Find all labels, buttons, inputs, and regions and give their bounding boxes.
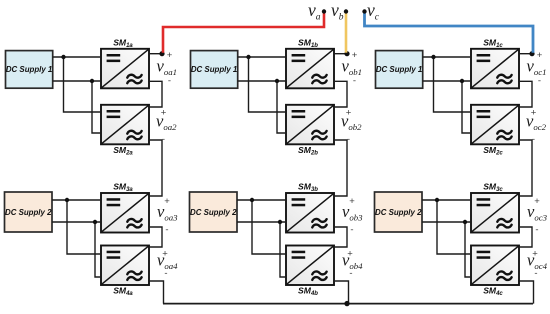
converter submodule SM4a — [101, 246, 149, 286]
converter submodule SM1c — [471, 49, 519, 89]
DC supply source "DC Supply 1" phase box — [6, 51, 53, 89]
wire tap vertical to SM4a bottom input — [95, 222, 101, 277]
wire series link SM2c output- to SM3c output+ — [519, 140, 532, 196]
terminal dot v_a — [322, 9, 326, 13]
wire SM1b output+ to phase node — [334, 53, 347, 55]
terminal dot v_c — [362, 9, 366, 13]
wire tap vertical to SM2b bottom input — [277, 81, 286, 133]
svg-text:-: - — [165, 225, 168, 236]
DC supply source "DC Supply 2" phase box — [5, 192, 53, 232]
svg-text:-: - — [347, 134, 350, 145]
wire DC Supply 2 (+) to SM3b and SM4b DC inputs — [237, 199, 286, 201]
junction dot phase b on neutral bus — [344, 301, 349, 306]
wire DC Supply 2 (-) to SM3c and SM4c DC inputs — [422, 221, 471, 223]
svg-text:+: + — [537, 50, 543, 61]
converter submodule SM4b — [286, 246, 334, 286]
wire phase b terminal (yellow) — [345, 12, 348, 53]
output voltage label v_oc3 with polarity marks — [527, 196, 548, 235]
wire SM1c output+ to phase node — [519, 53, 532, 55]
svg-text:+: + — [349, 196, 355, 207]
wire series link SM3a output- to SM4a output+ — [149, 227, 162, 247]
wire tap vertical to SM2c bottom input — [462, 81, 471, 133]
node phase a terminal junction — [159, 51, 164, 56]
svg-text:-: - — [353, 76, 356, 87]
wire DC Supply 2 (+) to SM3c and SM4c DC inputs — [422, 199, 471, 201]
wire tap vertical to SM2a bottom input — [92, 81, 101, 133]
converter submodule SM3a — [101, 193, 149, 233]
output voltage label v_ob3 with polarity marks — [342, 196, 363, 235]
wire DC Supply 1 (+) to SM1b and SM2b DC inputs — [238, 56, 286, 58]
svg-text:DC Supply 1: DC Supply 1 — [376, 65, 422, 74]
wire DC Supply 2 (-) to SM3a and SM4a DC inputs — [52, 221, 101, 223]
svg-text:-: - — [534, 268, 537, 279]
svg-text:+: + — [167, 50, 173, 61]
junction dot on DC Supply 2 (-) wire — [463, 220, 467, 224]
wire series link SM2b output- to SM3b output+ — [334, 140, 347, 196]
converter submodule SM2a — [101, 105, 149, 145]
phase a group — [5, 37, 179, 303]
wire tap vertical to SM2b top input — [249, 57, 287, 112]
junction dot on DC Supply 2 (+) wire — [65, 198, 69, 202]
wire phase c terminal (blue) — [365, 12, 534, 53]
wire series link SM1c output- to SM2c output+ — [519, 81, 532, 107]
node phase c terminal junction — [529, 51, 534, 56]
wire DC Supply 1 (-) to SM1b and SM2b DC inputs — [238, 80, 286, 82]
wire series link SM3c output- to SM4c output+ — [519, 227, 532, 247]
svg-text:-: - — [349, 268, 352, 279]
wire tap vertical to SM2a top input — [64, 57, 102, 112]
svg-text:DC Supply 2: DC Supply 2 — [5, 208, 52, 217]
wire DC Supply 2 (+) to SM3a and SM4a DC inputs — [52, 199, 101, 201]
wire tap vertical to SM4a top input — [67, 200, 101, 254]
svg-text:-: - — [164, 268, 167, 279]
wire tap vertical to SM4c top input — [437, 200, 471, 254]
junction dot on DC Supply 1 (-) wire — [275, 79, 279, 83]
converter submodule SM4c — [471, 246, 519, 286]
svg-text:-: - — [532, 134, 535, 145]
junction dot on DC Supply 1 (+) wire — [431, 55, 435, 59]
svg-text:-: - — [162, 134, 165, 145]
output voltage label v_ob4 with polarity marks — [342, 249, 363, 279]
wire series link SM1b output- to SM2b output+ — [334, 81, 347, 107]
wire SM4b output- down to bottom bus — [334, 281, 349, 304]
DC supply source "DC Supply 1" phase box — [191, 51, 238, 89]
wire DC Supply 1 (-) to SM1c and SM2c DC inputs — [423, 80, 471, 82]
svg-text:DC Supply 1: DC Supply 1 — [191, 65, 237, 74]
svg-text:-: - — [538, 76, 541, 87]
wire DC Supply 1 (+) to SM1c and SM2c DC inputs — [423, 56, 471, 58]
DC supply source "DC Supply 2" phase box — [375, 192, 423, 232]
wire DC Supply 1 (+) to SM1a and SM2a DC inputs — [53, 56, 101, 58]
node phase b terminal junction — [344, 51, 349, 56]
converter submodule SM3c — [471, 193, 519, 233]
DC supply source "DC Supply 2" phase box — [190, 192, 238, 232]
svg-text:DC Supply 2: DC Supply 2 — [190, 208, 237, 217]
output voltage label v_ob2 with polarity marks — [341, 108, 362, 145]
junction dot on DC Supply 2 (-) wire — [93, 220, 97, 224]
junction dot on DC Supply 1 (+) wire — [61, 55, 65, 59]
output voltage label v_oa1 with polarity marks — [157, 50, 178, 86]
DC supply source "DC Supply 1" phase box — [376, 51, 423, 89]
wire series link SM2a output- to SM3a output+ — [149, 140, 162, 196]
svg-text:-: - — [350, 225, 353, 236]
wire bottom neutral bus — [163, 303, 533, 305]
wire tap vertical to SM4b top input — [252, 200, 286, 254]
converter submodule SM2b — [286, 105, 334, 145]
wire DC Supply 1 (-) to SM1a and SM2a DC inputs — [53, 80, 101, 82]
phase c group — [375, 37, 548, 303]
output voltage label v_oc2 with polarity marks — [526, 108, 547, 145]
wire SM4a output- down to bottom bus — [149, 281, 164, 304]
wire series link SM1a output- to SM2a output+ — [149, 81, 162, 107]
svg-text:DC Supply 1: DC Supply 1 — [6, 65, 52, 74]
junction dot on DC Supply 2 (-) wire — [278, 220, 282, 224]
wire tap vertical to SM2c top input — [434, 57, 472, 112]
phase b group — [190, 37, 364, 303]
svg-text:DC Supply 2: DC Supply 2 — [375, 208, 422, 217]
wire tap vertical to SM4b bottom input — [280, 222, 286, 277]
svg-text:+: + — [352, 50, 358, 61]
output voltage label v_oa3 with polarity marks — [157, 196, 178, 235]
wire phase a terminal (red) — [163, 12, 324, 53]
wire series link SM3b output- to SM4b output+ — [334, 227, 347, 247]
wire tap vertical to SM4c bottom input — [465, 222, 471, 277]
wire SM1a output+ to phase node — [149, 53, 162, 55]
junction dot on DC Supply 1 (-) wire — [460, 79, 464, 83]
wire DC Supply 2 (-) to SM3b and SM4b DC inputs — [237, 221, 286, 223]
converter submodule SM1a — [101, 49, 149, 89]
junction dot on DC Supply 1 (+) wire — [246, 55, 250, 59]
terminal dot v_b — [344, 9, 348, 13]
svg-text:+: + — [534, 196, 540, 207]
output voltage label v_oc1 with polarity marks — [527, 50, 547, 86]
output voltage label v_oa2 with polarity marks — [156, 108, 177, 145]
wire SM4c output- down to bottom bus — [519, 281, 534, 304]
converter submodule SM2c — [471, 105, 519, 145]
converter submodule SM3b — [286, 193, 334, 233]
output voltage label v_ob1 with polarity marks — [342, 50, 363, 86]
converter submodule SM1b — [286, 49, 334, 89]
output voltage label v_oa4 with polarity marks — [157, 249, 178, 279]
svg-text:-: - — [535, 225, 538, 236]
output voltage label v_oc4 with polarity marks — [527, 249, 548, 279]
junction dot on DC Supply 1 (-) wire — [90, 79, 94, 83]
svg-text:-: - — [168, 76, 171, 87]
junction dot on DC Supply 2 (+) wire — [435, 198, 439, 202]
junction dot on DC Supply 2 (+) wire — [250, 198, 254, 202]
svg-text:+: + — [164, 196, 170, 207]
